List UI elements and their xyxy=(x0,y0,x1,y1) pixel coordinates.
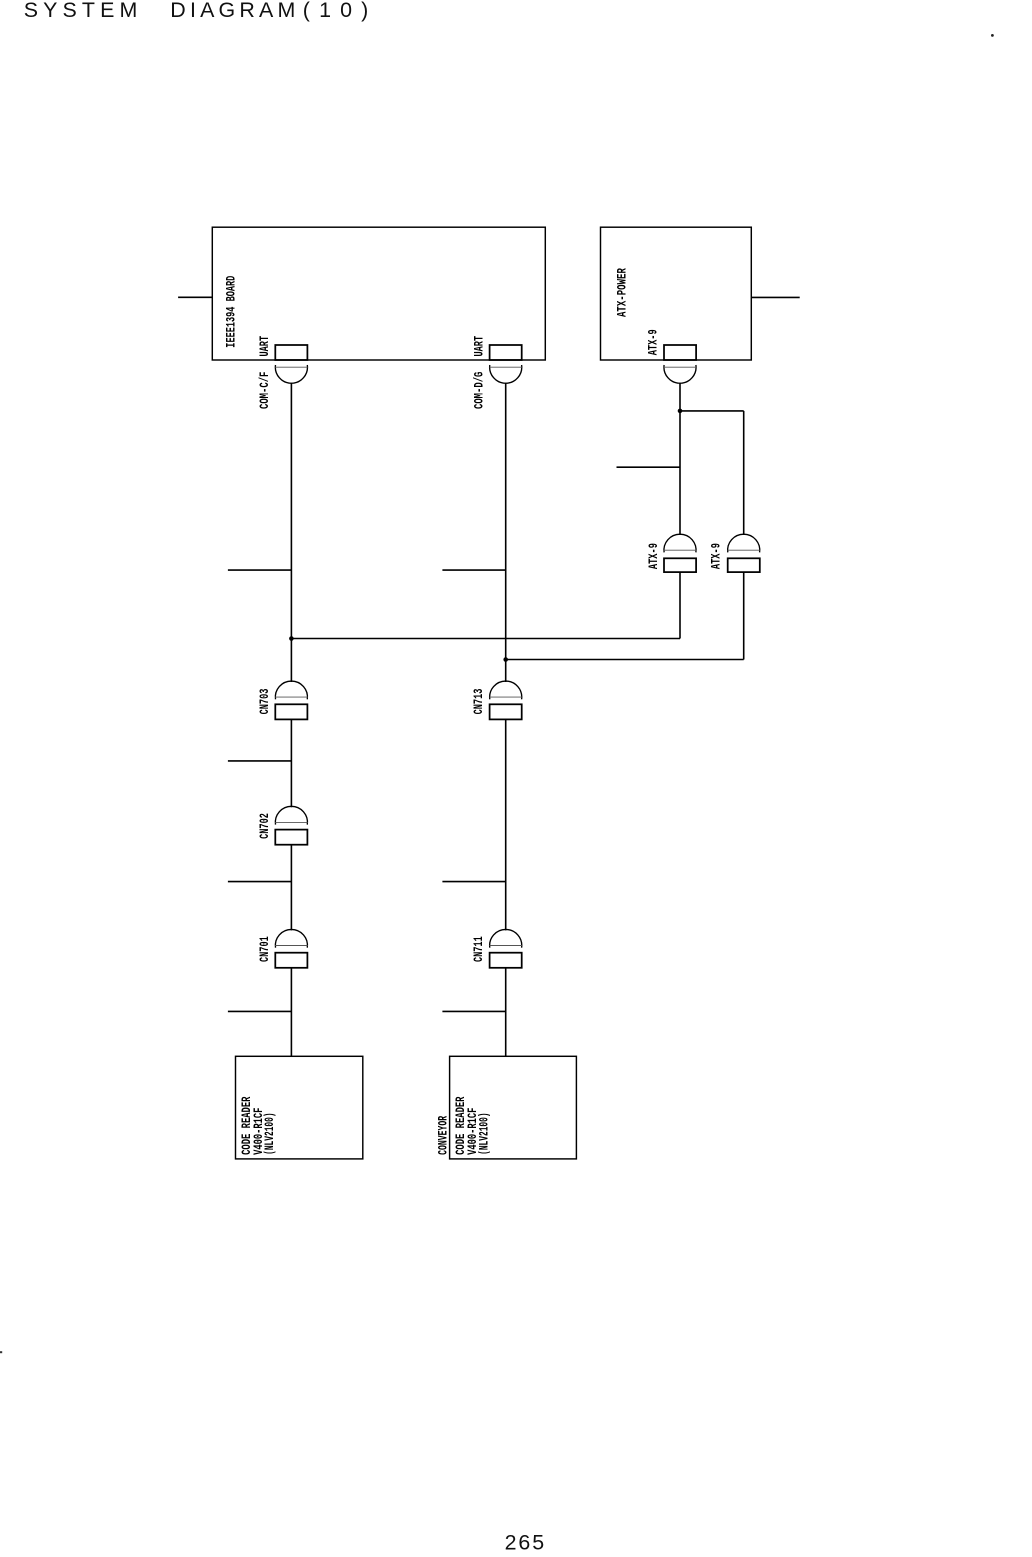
svg-text:ATX-9: ATX-9 xyxy=(709,543,724,569)
wire xyxy=(290,968,292,1057)
cable stub tick xyxy=(442,1010,505,1012)
ATX-POWER box xyxy=(601,227,752,360)
wire xyxy=(290,383,292,682)
wire xyxy=(679,383,681,535)
wire xyxy=(290,719,292,807)
cable stub tick xyxy=(442,569,505,571)
connector ATX-9 board plug plug shell (bowl below) xyxy=(664,365,696,383)
wire xyxy=(506,659,744,661)
connector COM-D/G plug shell (bowl below) xyxy=(490,365,522,383)
connector CN711 plug shell (dome up) xyxy=(490,929,522,947)
page title xyxy=(24,0,369,22)
connector CN713 plug shell (dome up) xyxy=(490,681,522,699)
CONVEYOR CODE READER box xyxy=(450,1056,577,1159)
stub wire left of IEEE1394 board xyxy=(178,296,212,298)
connector ATX-9 pair1 plug shell (dome up) xyxy=(664,534,696,552)
svg-text:UART: UART xyxy=(471,336,486,357)
stub wire right of ATX-POWER box xyxy=(751,296,799,298)
svg-text:IEEE1394 BOARD: IEEE1394 BOARD xyxy=(224,276,239,348)
connector CN703 plug shell (dome up) xyxy=(275,681,307,699)
connector UART (COM-D/G) socket rectangle xyxy=(490,345,522,360)
svg-text:COM-C/F: COM-C/F xyxy=(257,371,272,409)
CODE READER box xyxy=(236,1056,363,1159)
cable stub tick xyxy=(228,569,292,571)
speck top-right xyxy=(991,34,994,37)
svg-text:(NLV2100): (NLV2100) xyxy=(262,1112,277,1155)
wire xyxy=(743,572,745,659)
svg-text:UART: UART xyxy=(257,336,272,357)
cable stub tick xyxy=(617,466,681,468)
connector CN702 socket rectangle xyxy=(275,830,307,845)
cable stub tick xyxy=(442,881,505,883)
connector CN703 socket rectangle xyxy=(275,704,307,719)
svg-text:ATX-9: ATX-9 xyxy=(646,543,661,569)
svg-text:COM-D/G: COM-D/G xyxy=(471,371,486,409)
connector ATX-9 pair1 socket rectangle xyxy=(664,558,696,572)
connector CN701 plug shell (dome up) xyxy=(275,929,307,947)
svg-text:ATX-9: ATX-9 xyxy=(646,329,661,355)
svg-text:CN713: CN713 xyxy=(471,688,486,714)
connector ATX-9 pair2 socket rectangle xyxy=(728,558,760,572)
wire xyxy=(680,410,744,412)
wire xyxy=(291,638,680,640)
svg-text:CONVEYOR: CONVEYOR xyxy=(436,1116,451,1155)
wire xyxy=(290,845,292,931)
svg-text:CN711: CN711 xyxy=(471,936,486,962)
wire xyxy=(505,383,507,682)
wire xyxy=(505,719,507,930)
connector COM-C/F plug shell (bowl below) xyxy=(275,365,307,383)
svg-text:ATX-POWER: ATX-POWER xyxy=(614,268,629,317)
svg-text:(NLV2100): (NLV2100) xyxy=(476,1112,491,1155)
junction node COM-C/F join xyxy=(289,636,294,641)
cable stub tick xyxy=(228,1010,292,1012)
cable stub tick xyxy=(228,881,292,883)
connector CN702 plug shell (dome up) xyxy=(275,806,307,824)
wire xyxy=(679,572,681,638)
connector CN701 socket rectangle xyxy=(275,953,307,968)
connector CN713 socket rectangle xyxy=(490,704,522,719)
connector CN711 socket rectangle xyxy=(490,953,522,968)
svg-text:CN703: CN703 xyxy=(257,688,272,714)
junction node COM-D/G join xyxy=(503,657,508,662)
wire xyxy=(505,968,507,1057)
connector ATX-9 pair2 plug shell (dome up) xyxy=(728,534,760,552)
speck left-edge xyxy=(0,1351,2,1353)
junction node ATX branch xyxy=(678,409,683,414)
IEEE1394 BOARD box xyxy=(212,227,545,360)
svg-text:265: 265 xyxy=(505,1530,544,1554)
cable stub tick xyxy=(228,760,292,762)
wire xyxy=(743,411,745,535)
svg-text:CN702: CN702 xyxy=(257,813,272,839)
svg-text:CN701: CN701 xyxy=(257,936,272,962)
svg-text:DIAGRAM: DIAGRAM xyxy=(170,0,295,22)
connector ATX-9 (board) socket rectangle xyxy=(664,345,696,360)
connector UART (COM-C/F) socket rectangle xyxy=(275,345,307,360)
